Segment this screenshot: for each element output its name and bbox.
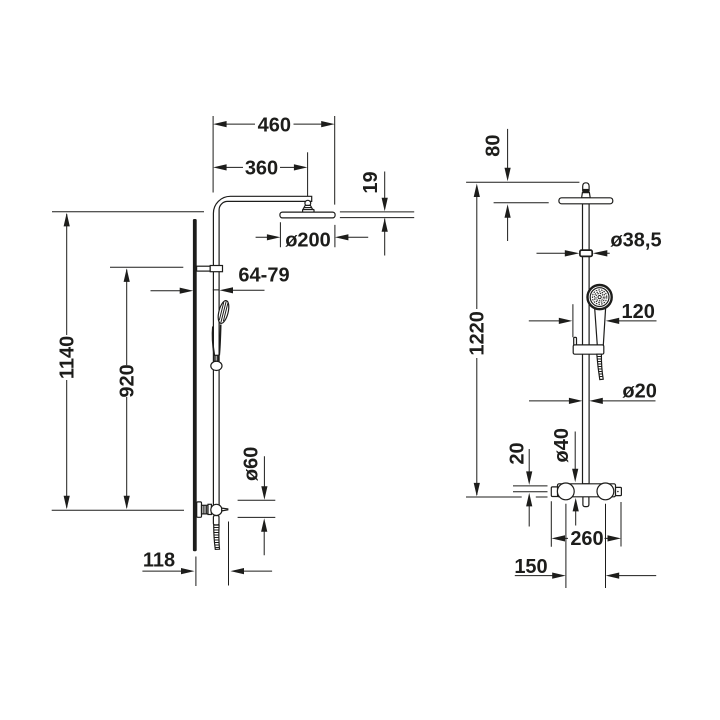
svg-text:1140: 1140 [57, 336, 79, 379]
dim diameter 20 [529, 380, 657, 404]
wall panel [193, 219, 197, 551]
svg-text:1220: 1220 [467, 311, 489, 356]
svg-text:360: 360 [245, 158, 278, 180]
dim 1220 [467, 184, 489, 497]
slider ring [211, 361, 222, 370]
svg-text:20: 20 [507, 442, 529, 464]
hose side view [214, 525, 220, 549]
svg-text:ø40: ø40 [551, 428, 573, 462]
dim 360 [213, 152, 308, 196]
thermostatic valve front view [551, 483, 621, 507]
svg-text:920: 920 [117, 364, 139, 397]
valve side view: pointer [222, 508, 228, 511]
svg-text:64-79: 64-79 [238, 264, 289, 286]
dim 260 [552, 528, 622, 550]
rain head plate front view [559, 198, 613, 204]
svg-text:ø60: ø60 [241, 447, 263, 481]
slider holder front view [573, 337, 604, 354]
valve side view: hose nut [213, 516, 219, 526]
rain head plate side view [280, 212, 335, 218]
dim 460 [213, 114, 335, 204]
top reference line right view [466, 181, 579, 183]
svg-text:150: 150 [514, 556, 547, 578]
hand shower front view [588, 285, 612, 346]
diverter knob top [582, 183, 591, 198]
riser pipe and shower arm [213, 196, 311, 505]
dim diameter 200 [256, 222, 369, 251]
head plate reference lines right [340, 212, 414, 218]
bottom reference line left view [52, 509, 184, 511]
svg-text:ø20: ø20 [622, 380, 656, 402]
hose front view [597, 354, 603, 379]
valve side view: knob [211, 504, 222, 515]
dim 20 right view [507, 442, 548, 526]
svg-text:260: 260 [570, 528, 603, 550]
ball joint [305, 200, 311, 206]
svg-text:120: 120 [622, 301, 655, 323]
valve side view: collar [208, 504, 211, 514]
wall bracket [197, 266, 211, 271]
svg-text:ø200: ø200 [285, 230, 331, 252]
dim diameter 38,5 connector [537, 230, 662, 257]
extension lines 150 [566, 504, 606, 588]
bottom reference line right view [466, 496, 548, 498]
dim 64-79 [151, 264, 290, 293]
svg-text:ø38,5: ø38,5 [610, 230, 661, 252]
valve side view: wall flange [197, 502, 202, 517]
valve side view: neck [202, 505, 209, 514]
reference line 920 top [110, 266, 183, 268]
dim 120 [529, 301, 657, 337]
top reference line left view [52, 211, 204, 213]
extension lines 260 [551, 501, 621, 546]
svg-text:80: 80 [482, 134, 504, 156]
mid reference line under head [494, 202, 549, 204]
LEFT-FIG [52, 114, 415, 586]
dim 118 [142, 522, 272, 587]
svg-text:118: 118 [143, 550, 175, 572]
hand shower side view [213, 300, 231, 362]
dim 920 [117, 268, 139, 509]
dim 1140 [57, 213, 79, 509]
dim diameter 60 [238, 447, 276, 556]
dim diameter 40 [551, 428, 579, 526]
svg-text:19: 19 [360, 171, 382, 193]
dim 80 [482, 129, 510, 241]
dim 150 [514, 556, 656, 579]
svg-text:460: 460 [258, 114, 291, 136]
riser pipe front view [583, 204, 590, 484]
dim 19 [360, 171, 388, 255]
RIGHT-FIG [466, 129, 662, 588]
